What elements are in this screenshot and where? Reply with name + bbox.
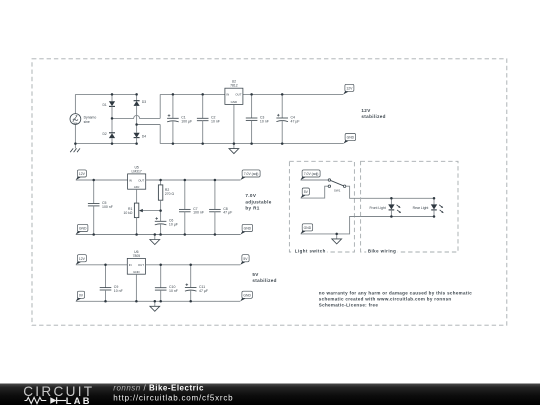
junction [214,179,217,182]
wire regulated 12V rail [243,93,343,95]
wire plus riser [159,94,161,118]
diode D3 [134,100,147,106]
svg-text:ADJ: ADJ [134,185,140,189]
wire switch common to lights [346,186,434,198]
junction [111,142,114,145]
junction [92,233,95,236]
junction [135,123,138,126]
LED D5 Front Light [369,198,401,216]
node flag 12V output [343,84,354,94]
svg-text:ronnsn / Bike-Electric: ronnsn / Bike-Electric [113,383,204,392]
ground below U2 [229,144,239,154]
junction [214,233,217,236]
svg-text:Front Light: Front Light [369,206,385,210]
wire D2 anode lead [111,138,113,144]
wire 12V to U6 IN [76,264,128,266]
schematic dashed border frame [32,59,507,325]
svg-text:12V: 12V [346,86,353,90]
svg-text:10 µF: 10 µF [169,223,178,227]
bike wiring dashed enclosure [361,161,458,252]
svg-text:5V: 5V [243,257,248,261]
svg-text:270 Ω: 270 Ω [165,192,175,196]
light switch dashed enclosure [289,161,354,252]
node flag 0V [76,291,85,301]
svg-text:10 nF: 10 nF [211,120,220,124]
wire bridge minus output [137,124,161,126]
node flag 12V input mid [76,170,87,180]
svg-text:0V: 0V [79,293,84,297]
junction [172,142,175,145]
svg-text:47 µF: 47 µF [199,289,208,293]
svg-text:GND: GND [231,100,237,104]
wire U5 ADJ to R1 [136,189,138,203]
svg-text:7.0V (adj): 7.0V (adj) [304,172,319,176]
junction [135,300,138,303]
earth ground [70,144,80,153]
wire lights return to GND [301,217,434,234]
wire top rail bridge [75,93,136,95]
wire 5V to switch throw B [301,186,329,198]
junction [281,142,284,145]
svg-text:stabilized: stabilized [252,278,276,283]
wire unregulated 12V rail [160,93,225,95]
switch SW1 SPDT [328,179,346,193]
svg-text:IN: IN [129,178,132,182]
wire R1 bottom lead [136,218,138,235]
svg-text:10 kΩ: 10 kΩ [123,211,132,215]
junction [189,300,192,303]
svg-text:7.0V: 7.0V [245,193,256,198]
junction [201,142,204,145]
diode D2 [102,132,115,138]
ground mid section [150,235,160,245]
junction [201,93,204,96]
svg-text:D3: D3 [142,100,146,104]
junction [104,264,107,267]
capacitor C9 10nF [100,265,123,302]
svg-text:100 nF: 100 nF [193,211,204,215]
junction [390,215,393,218]
svg-text:Schematic-License: free: Schematic-License: free [319,303,379,308]
svg-text:12V: 12V [79,172,86,176]
capacitor C8 47uF [209,180,232,235]
diode D4 [134,133,147,139]
capacitor C11 47uF [185,265,208,302]
node flag 5V switch input [301,188,310,198]
capacitor C6 10uF [155,217,178,234]
svg-text:Rear Light: Rear Light [413,206,429,210]
svg-text:5V: 5V [252,272,259,277]
svg-text:GND: GND [304,226,312,230]
svg-text:by R1: by R1 [245,206,259,211]
regulator U2 7812 [225,80,243,105]
capacitor C10 10nF [155,265,178,302]
source V1 Dynamo sine [70,114,96,125]
svg-text:SW1: SW1 [334,189,341,193]
junction [159,233,162,236]
junction [159,300,162,303]
junction [159,179,162,182]
wire U2 GND pin [233,104,235,143]
label Light switch [293,248,327,254]
wire U6 OUT rail [145,264,240,266]
svg-text:7.0V (adj): 7.0V (adj) [244,172,259,176]
svg-text:Bike wiring: Bike wiring [368,248,396,253]
junction [159,209,162,212]
junction [335,233,338,236]
svg-text:stabilized: stabilized [361,114,385,119]
regulator U5 LM317 [128,165,146,189]
svg-text:D4: D4 [142,134,146,138]
potentiometer R1 10k [123,203,160,218]
svg-text:5V: 5V [304,190,309,194]
node flag 7.0V adj switch input [301,170,321,180]
junction [250,142,253,145]
wire D3 cathode lead [136,94,138,100]
wire R2 to C6 [160,200,162,221]
svg-text:12V: 12V [79,257,86,261]
capacitor C4 47uF [276,94,299,143]
svg-text:GND: GND [244,227,252,231]
junction [92,179,95,182]
svg-text:OUT: OUT [138,263,144,267]
diode D1 [102,101,115,107]
junction [433,197,436,200]
footer title text [113,383,233,402]
node flag GND switch [301,224,313,234]
svg-text:D2: D2 [102,132,106,136]
svg-text:GND: GND [133,270,139,274]
svg-text:GND: GND [347,136,355,140]
junction [184,179,187,182]
svg-text:Dynamo: Dynamo [84,116,97,120]
junction [135,142,138,145]
wire dynamo bottom lead [74,124,76,143]
junction [233,142,236,145]
svg-text:LM317: LM317 [131,169,141,173]
note 7.0V adjustable by R1 [245,193,271,211]
junction [135,93,138,96]
junction [159,264,162,267]
wire D3-D4 branch [136,106,138,133]
junction [281,93,284,96]
wire D4 cathode lead [136,138,138,144]
svg-text:10 nF: 10 nF [114,289,123,293]
svg-text:http://circuitlab.com/cf5xrcb: http://circuitlab.com/cf5xrcb [113,393,233,402]
resistor R2 270 ohm [158,180,174,200]
junction [390,197,393,200]
LED D6 Rear Light [413,198,444,216]
junction [154,233,157,236]
svg-text:Light switch: Light switch [295,248,326,253]
svg-text:schematic created with www.cir: schematic created with www.circuitlab.co… [319,297,452,302]
svg-text:GND: GND [79,227,87,231]
svg-text:47 µF: 47 µF [291,119,300,123]
wire bottom section ground rail [76,300,241,302]
junction [172,93,175,96]
wire minus dropper [159,125,161,144]
junction [154,300,157,303]
wire 7V to switch throw A [301,179,329,181]
svg-text:adjustable: adjustable [245,200,271,205]
capacitor C2 10nF [197,94,220,143]
svg-text:OUT: OUT [138,178,144,182]
node flag GND top section [344,134,356,144]
wire mid section ground rail [76,234,241,236]
junction [104,300,107,303]
svg-text:7812: 7812 [230,84,238,88]
svg-text:GND: GND [243,293,251,297]
svg-text:12V: 12V [361,108,371,113]
junction [74,142,77,145]
node flag GND mid right [241,224,253,234]
node flag GND mid left [76,224,88,234]
junction [111,117,114,120]
wire top section ground rail [160,143,343,145]
note 5V stabilized [252,272,276,283]
capacitor C1 100uF [167,94,192,143]
svg-text:100 µF: 100 µF [181,120,192,124]
wire bridge plus output with crossover hop [112,115,160,118]
wire U6 GND pin [135,274,137,301]
svg-text:10 nF: 10 nF [260,119,269,123]
ground bottom section [150,301,160,311]
svg-text:7805: 7805 [133,254,141,258]
svg-text:sine: sine [84,120,90,124]
wire 12V to U5 IN [76,179,128,181]
junction [250,93,253,96]
svg-text:OUT: OUT [235,93,241,97]
label Bike wiring [366,248,398,254]
junction [111,93,114,96]
capacitor C7 100nF [179,180,204,235]
wire dynamo top lead [74,94,76,113]
junction [135,233,138,236]
wire bottom rail bridge [75,143,136,145]
svg-text:100 nF: 100 nF [102,205,113,209]
wire U5 OUT rail [146,179,241,181]
ground light switch [332,234,342,244]
capacitor C5 100nF [88,180,113,235]
CircuitLab logo [23,384,94,405]
wire D1-D2 branch [111,106,113,132]
junction [433,215,436,218]
note 12V stabilized [361,108,385,119]
svg-text:IN: IN [226,93,229,97]
svg-text:47 µF: 47 µF [223,211,232,215]
node flag 5V output [240,255,249,265]
regulator U6 7805 [127,250,145,274]
wire D1 anode lead [111,94,113,101]
node flag 12V input bottom [76,255,87,265]
svg-text:LAB: LAB [66,396,92,405]
svg-text:D1: D1 [102,103,106,107]
junction [189,264,192,267]
junction [184,233,187,236]
node flag 7.0V adj output [241,170,261,180]
node flag GND bottom [240,291,252,301]
svg-text:IN: IN [129,263,132,267]
svg-text:no warranty for any harm or da: no warranty for any harm or damage cause… [319,290,472,295]
svg-text:10 nF: 10 nF [169,289,178,293]
capacitor C3 10nF [246,94,269,143]
note warranty text [319,290,472,307]
